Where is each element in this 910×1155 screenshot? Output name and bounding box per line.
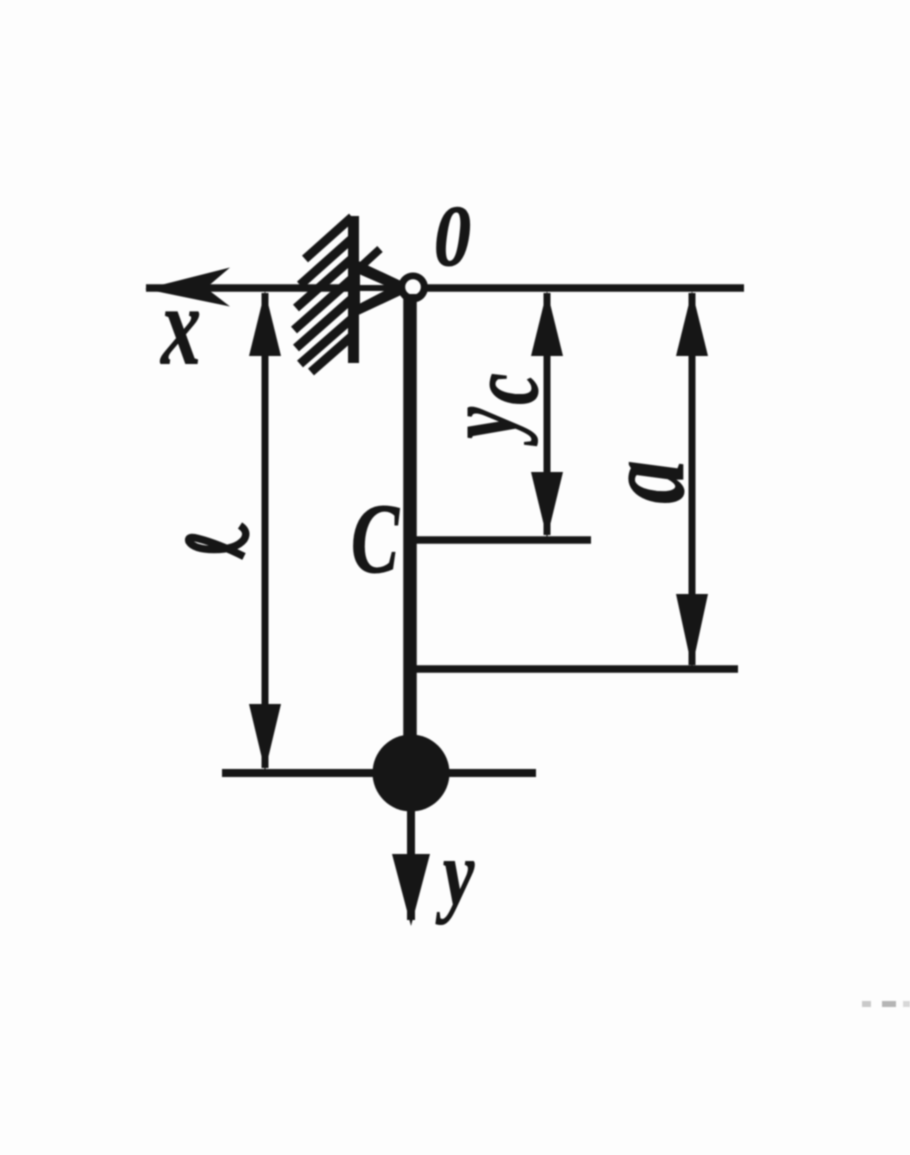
wall line bbox=[348, 216, 359, 363]
svg-text:c: c bbox=[448, 373, 559, 405]
pivot triangle support bbox=[352, 258, 416, 318]
dimension line a bbox=[689, 293, 696, 665]
x-axis left arrowhead bbox=[145, 268, 230, 307]
scan noise specks bottom right bbox=[862, 1001, 910, 1007]
svg-text:C: C bbox=[351, 482, 400, 593]
label y_c (rotated) bbox=[425, 373, 559, 446]
bottom horizontal line through bob bbox=[222, 769, 536, 777]
label O bbox=[434, 188, 471, 284]
label a (rotated) bbox=[582, 460, 708, 503]
label x bbox=[159, 264, 200, 389]
y-axis arrow bbox=[407, 806, 415, 920]
label C bbox=[351, 482, 400, 593]
hatched wall bbox=[294, 217, 356, 372]
svg-text:x: x bbox=[159, 264, 200, 389]
svg-text:y: y bbox=[425, 407, 539, 446]
line at C bbox=[408, 536, 591, 544]
svg-text:a: a bbox=[582, 460, 708, 503]
wire x-axis horizontal line bbox=[146, 284, 744, 292]
label l (script ell, rotated) bbox=[189, 526, 246, 557]
dimension line l bbox=[262, 293, 269, 768]
lower horizontal line (at a's bottom) bbox=[408, 665, 738, 673]
bob (point mass) bbox=[373, 735, 450, 812]
pin circle at O bbox=[398, 273, 428, 303]
svg-text:0: 0 bbox=[434, 188, 471, 284]
dimension line y_c bbox=[544, 293, 551, 535]
svg-text:y: y bbox=[435, 821, 474, 925]
rod (pendulum bar) bbox=[403, 294, 417, 773]
label y bbox=[435, 821, 474, 925]
